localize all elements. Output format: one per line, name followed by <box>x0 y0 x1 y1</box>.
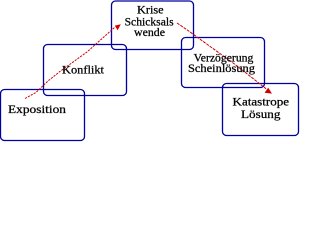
svg-text:Scheinlösung: Scheinlösung <box>188 63 255 75</box>
svg-text:Katastrope: Katastrope <box>233 96 290 108</box>
svg-text:Exposition: Exposition <box>8 104 66 116</box>
svg-text:wende: wende <box>134 27 165 39</box>
svg-text:Krise: Krise <box>137 4 164 16</box>
svg-text:Lösung: Lösung <box>241 109 281 121</box>
svg-text:Konflikt: Konflikt <box>62 65 105 77</box>
